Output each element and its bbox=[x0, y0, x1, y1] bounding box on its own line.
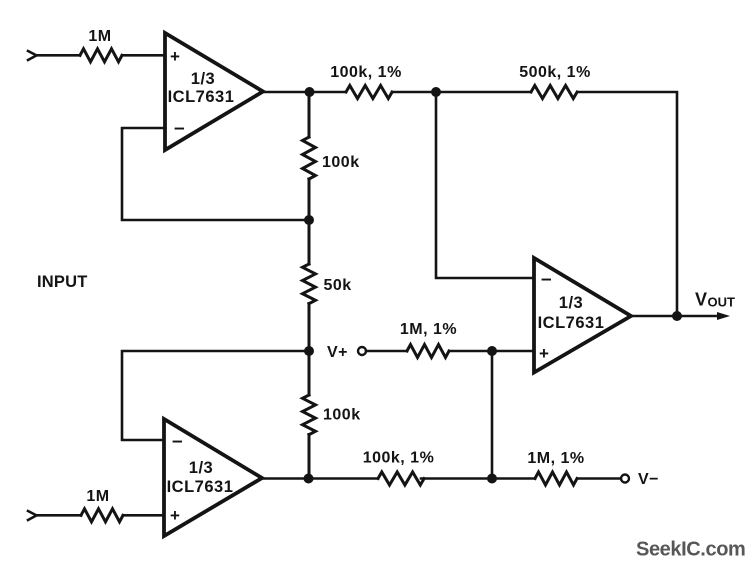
value 100k bbox=[323, 407, 361, 424]
wire: R10 to U3 noninverting input bbox=[123, 514, 164, 517]
resistor R6 100k vertical bbox=[303, 351, 316, 479]
svg-text:OUT: OUT bbox=[708, 295, 736, 310]
svg-text:100k, 1%: 100k, 1% bbox=[363, 450, 435, 467]
svg-text:50k: 50k bbox=[324, 277, 352, 294]
wire: U1 output to node A bbox=[263, 91, 346, 94]
resistor R5 50k vertical bbox=[303, 220, 316, 351]
svg-text:SeekIC.com: SeekIC.com bbox=[636, 539, 745, 561]
node A junction dot bbox=[305, 87, 315, 97]
node F junction dot bbox=[487, 346, 497, 356]
value 1M, 1% bbox=[400, 321, 457, 338]
svg-text:1M: 1M bbox=[86, 488, 109, 505]
svg-text:+: + bbox=[170, 47, 180, 66]
label VOUT bbox=[695, 290, 735, 310]
svg-text:500k, 1%: 500k, 1% bbox=[519, 64, 591, 81]
svg-text:1M, 1%: 1M, 1% bbox=[527, 450, 584, 467]
value 100k bbox=[322, 154, 360, 171]
svg-text:ICL7631: ICL7631 bbox=[167, 478, 234, 496]
value 1M bbox=[88, 28, 111, 45]
svg-text:1M, 1%: 1M, 1% bbox=[400, 321, 457, 338]
svg-text:ICL7631: ICL7631 bbox=[538, 314, 605, 332]
VOUT arrowhead bbox=[717, 312, 730, 320]
svg-text:1/3: 1/3 bbox=[559, 294, 583, 312]
wire: node B to U2 inverting input bbox=[436, 92, 534, 278]
value 50k bbox=[324, 277, 352, 294]
svg-text:1/3: 1/3 bbox=[191, 70, 215, 88]
svg-text:V+: V+ bbox=[327, 344, 348, 361]
node C junction dot bbox=[304, 215, 314, 225]
op-amp U2 1/3 ICL7631 bbox=[534, 258, 631, 373]
watermark SeekIC.com bbox=[636, 539, 745, 561]
node E junction dot bbox=[672, 311, 682, 321]
svg-text:+: + bbox=[170, 506, 180, 525]
wire: U3 output along bottom bbox=[262, 477, 378, 480]
svg-text:100k, 1%: 100k, 1% bbox=[330, 64, 402, 81]
wire: bottom input to R10 bbox=[37, 514, 82, 517]
svg-text:V−: V− bbox=[638, 471, 659, 488]
wire: U2 output to VOUT bbox=[631, 315, 723, 318]
node D junction dot bbox=[304, 346, 314, 356]
svg-text:–: – bbox=[174, 118, 185, 139]
resistor R1 1M bbox=[80, 49, 122, 62]
wire: R8 to R9 bbox=[421, 477, 535, 480]
svg-text:100k: 100k bbox=[322, 154, 360, 171]
resistor R8 100k 1% bbox=[378, 472, 424, 485]
resistor R2 100k 1% bbox=[346, 86, 392, 99]
svg-text:1M: 1M bbox=[88, 28, 111, 45]
wire: V+ to R7 bbox=[366, 350, 407, 353]
svg-text:–: – bbox=[541, 269, 552, 290]
resistor R10 1M bbox=[81, 509, 123, 522]
node G junction dot bbox=[304, 474, 314, 484]
svg-text:100k: 100k bbox=[323, 407, 361, 424]
wire: R2 to node B bbox=[392, 91, 531, 94]
resistor R3 500k 1% bbox=[531, 86, 577, 99]
svg-text:V: V bbox=[695, 290, 707, 310]
wire: node F down to node G bbox=[491, 351, 494, 479]
node H junction dot bbox=[487, 474, 497, 484]
wire: U1 inverting feedback bbox=[122, 128, 309, 220]
input terminal arrow (top input) bbox=[28, 51, 37, 60]
value 100k, 1% bbox=[363, 450, 435, 467]
svg-text:–: – bbox=[172, 431, 183, 452]
op-amp U1 1/3 ICL7631 bbox=[165, 33, 263, 150]
svg-text:INPUT: INPUT bbox=[37, 273, 88, 291]
wire: R7 to U2 noninverting input bbox=[449, 350, 534, 353]
label INPUT bbox=[37, 273, 88, 291]
value 1M, 1% bbox=[527, 450, 584, 467]
terminal V- bbox=[621, 475, 629, 483]
resistor R9 1M 1% bbox=[535, 472, 577, 485]
node B junction dot bbox=[431, 87, 441, 97]
resistor R7 1M 1% bbox=[407, 345, 449, 358]
value 500k, 1% bbox=[519, 64, 591, 81]
value 1M bbox=[86, 488, 109, 505]
resistor R4 100k vertical bbox=[303, 92, 316, 220]
svg-text:1/3: 1/3 bbox=[189, 459, 213, 477]
svg-text:+: + bbox=[539, 344, 549, 363]
label V- bbox=[638, 471, 659, 488]
label V+ bbox=[327, 344, 348, 361]
terminal V+ bbox=[358, 347, 366, 355]
value 100k, 1% bbox=[330, 64, 402, 81]
wire: R1 to U1 noninverting input bbox=[122, 54, 165, 57]
wire: top input to R1 bbox=[37, 54, 81, 57]
input terminal arrow (bottom input) bbox=[28, 511, 37, 520]
wire: U3 inverting feedback bbox=[122, 351, 309, 440]
wire: R3 to right corner down to output node bbox=[579, 92, 677, 316]
op-amp U3 1/3 ICL7631 bbox=[164, 419, 262, 536]
wire: R9 to V- terminal bbox=[578, 477, 621, 480]
svg-text:ICL7631: ICL7631 bbox=[168, 88, 235, 106]
